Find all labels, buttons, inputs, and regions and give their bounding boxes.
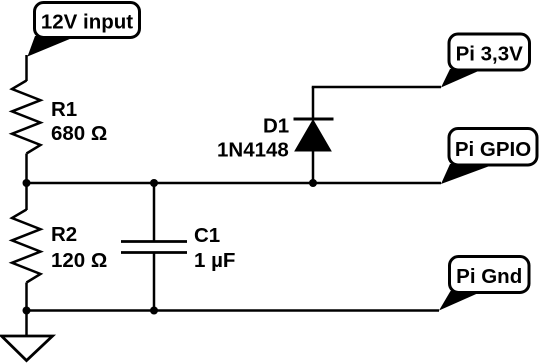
svg-text:680 Ω: 680 Ω [51,122,107,145]
junction node (C1 top tap) [150,179,158,187]
wire: D1 anode lead [312,151,315,183]
junction node (ground line left) [23,307,31,315]
svg-text:Pi Gnd: Pi Gnd [456,265,522,288]
svg-text:Pi GPIO: Pi GPIO [455,138,531,161]
svg-text:Pi 3,3V: Pi 3,3V [456,43,524,66]
svg-text:1N4148: 1N4148 [217,139,289,162]
svg-text:R2: R2 [51,223,77,246]
wire: ground net horizontal line [27,309,440,312]
wire: 12V input to R1 top [25,55,28,81]
junction node A (R1/R2/GPIO) [23,179,31,187]
wire: ground stub [25,311,28,337]
wire: D1 cathode lead [312,87,315,119]
wire: R1 bottom to node A [25,154,28,184]
wire: R2 top lead [25,183,28,210]
junction node (D1 anode tap) [309,179,317,187]
diode D1 cathode bar [294,118,334,121]
capacitor C1 [121,242,187,253]
net label 12V input (callout box) [28,3,140,57]
net label Pi GPIO (callout box) [441,129,537,185]
net label Pi Gnd (callout box) [439,257,529,311]
wire: C1 lower lead [153,253,156,311]
net label Pi 3,3V (callout box) [441,34,530,88]
svg-text:120 Ω: 120 Ω [51,249,107,272]
wire: C1 upper lead [153,183,156,242]
diode D1 (triangle anode) [295,120,331,151]
resistor R1 [12,81,41,154]
ground symbol [2,336,53,361]
svg-text:R1: R1 [51,98,77,121]
resistor R2 [12,210,41,283]
svg-text:12V input: 12V input [41,11,133,34]
svg-text:C1: C1 [194,224,220,247]
svg-text:1 µF: 1 µF [194,249,235,272]
wire: GPIO net horizontal line [27,182,442,185]
junction node (C1 bottom on ground line) [150,307,158,315]
svg-text:D1: D1 [263,115,289,138]
wire: 3.3V net horizontal line [312,86,441,89]
wire: R2 bottom lead [25,283,28,311]
